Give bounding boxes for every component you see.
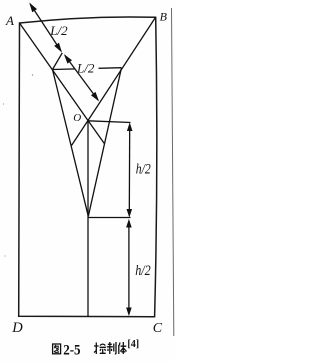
svg-text:B: B: [160, 10, 168, 24]
wire V-right P2 to V: [88, 68, 121, 217]
dimension arrow L/2 lower: [65, 56, 98, 101]
svg-text:D: D: [11, 320, 23, 336]
wire B to O crossing: [88, 17, 156, 120]
wire tick P1 to J: [53, 53, 63, 70]
dimension arrow h/2 upper: [127, 124, 132, 216]
svg-text:L/2: L/2: [49, 23, 68, 38]
svg-text:A: A: [5, 13, 14, 28]
svg-text:O: O: [73, 112, 81, 124]
wire O crossing to V-left line: [72, 121, 89, 146]
svg-text:h/2: h/2: [136, 162, 151, 178]
caption hanzi kong (control): [94, 343, 106, 355]
paper specks: [32, 74, 33, 75]
svg-text:2-5: 2-5: [63, 343, 80, 359]
svg-text:[4]: [4]: [127, 339, 139, 350]
label L/2 lower: [75, 61, 99, 76]
wire vertical center: [87, 121, 89, 317]
svg-text:C: C: [153, 321, 163, 336]
caption hanzi ti (body): [118, 342, 126, 354]
rectangle ABCD: [19, 17, 157, 317]
scan border right: [172, 8, 174, 336]
svg-text:h/2: h/2: [135, 263, 151, 279]
wire O horizontal to dimension: [88, 121, 131, 123]
wire V-left P1 to V: [53, 70, 89, 217]
dimension arrow L/2 upper: [30, 4, 61, 51]
wire A to O crossing: [20, 23, 89, 121]
caption hanzi tu (figure): [53, 344, 61, 354]
caption hanzi zhi (system): [107, 342, 116, 354]
wire lower horizontal to dimension: [88, 217, 130, 219]
wire O crossing to V-right line: [88, 121, 104, 144]
dimension arrow h/2 lower: [127, 221, 131, 315]
wire P1 to P2 horizontal: [53, 68, 122, 70]
